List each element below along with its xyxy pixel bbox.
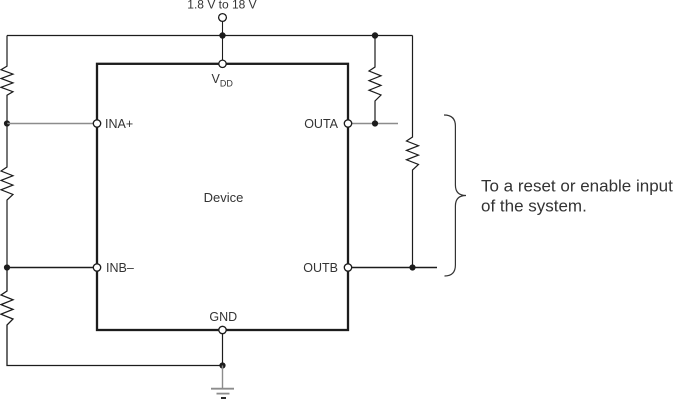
junction dot left rail at INA+ level <box>4 120 10 126</box>
device box <box>97 64 348 330</box>
pin circle GND <box>219 326 226 333</box>
svg-text:GND: GND <box>209 310 237 324</box>
junction dot on rail above R4 <box>372 32 378 38</box>
svg-text:Device: Device <box>204 190 244 205</box>
svg-text:To a reset or enable input: To a reset or enable input <box>481 176 673 195</box>
junction dot bottom ground node <box>219 362 225 368</box>
pin circle INA+ <box>93 120 100 127</box>
svg-text:of the system.: of the system. <box>481 196 587 215</box>
pin circle VDD <box>219 60 226 67</box>
wire OUTB (black) <box>348 267 437 269</box>
resistor R5 (series to OUTB) with leads from rail corner <box>407 36 419 268</box>
junction dot left rail at INB level <box>4 264 10 270</box>
svg-text:INB–: INB– <box>106 261 134 275</box>
wire OUTA stub (gray) <box>348 123 398 125</box>
svg-text:1.8 V to 18 V: 1.8 V to 18 V <box>187 0 256 12</box>
pin circle OUTB <box>344 264 351 271</box>
resistor R1 (left top) with leads <box>1 36 13 124</box>
resistor R2 (left middle) with leads <box>1 124 13 268</box>
junction dot on OUTA wire <box>372 120 378 126</box>
svg-text:OUTA: OUTA <box>304 117 338 131</box>
pin circle INB <box>93 264 100 271</box>
curly brace <box>444 115 466 276</box>
supply terminal circle <box>219 14 227 22</box>
resistor R3 (left bottom) with leads and bottom wire to ground junction <box>1 268 223 366</box>
svg-text:INA+: INA+ <box>105 117 133 131</box>
wire INA+ (gray) <box>7 123 94 125</box>
junction dot on rail above VDD <box>219 32 225 38</box>
junction dot on OUTB wire <box>409 264 415 270</box>
wire top VDD rail <box>7 35 413 37</box>
pin circle OUTA <box>344 120 351 127</box>
ground bar 1 <box>211 388 234 390</box>
ground bar 2 <box>217 393 230 395</box>
resistor R4 (pull-up for OUTA) with leads <box>369 36 381 124</box>
wire GND pin to bottom junction <box>222 330 224 366</box>
svg-text:OUTB: OUTB <box>303 261 338 275</box>
ground bar 3 <box>221 397 226 399</box>
wire INB (black) <box>7 267 94 269</box>
ground stem (gray) <box>222 366 224 389</box>
wire supply stub from terminal to VDD pin <box>222 22 224 61</box>
